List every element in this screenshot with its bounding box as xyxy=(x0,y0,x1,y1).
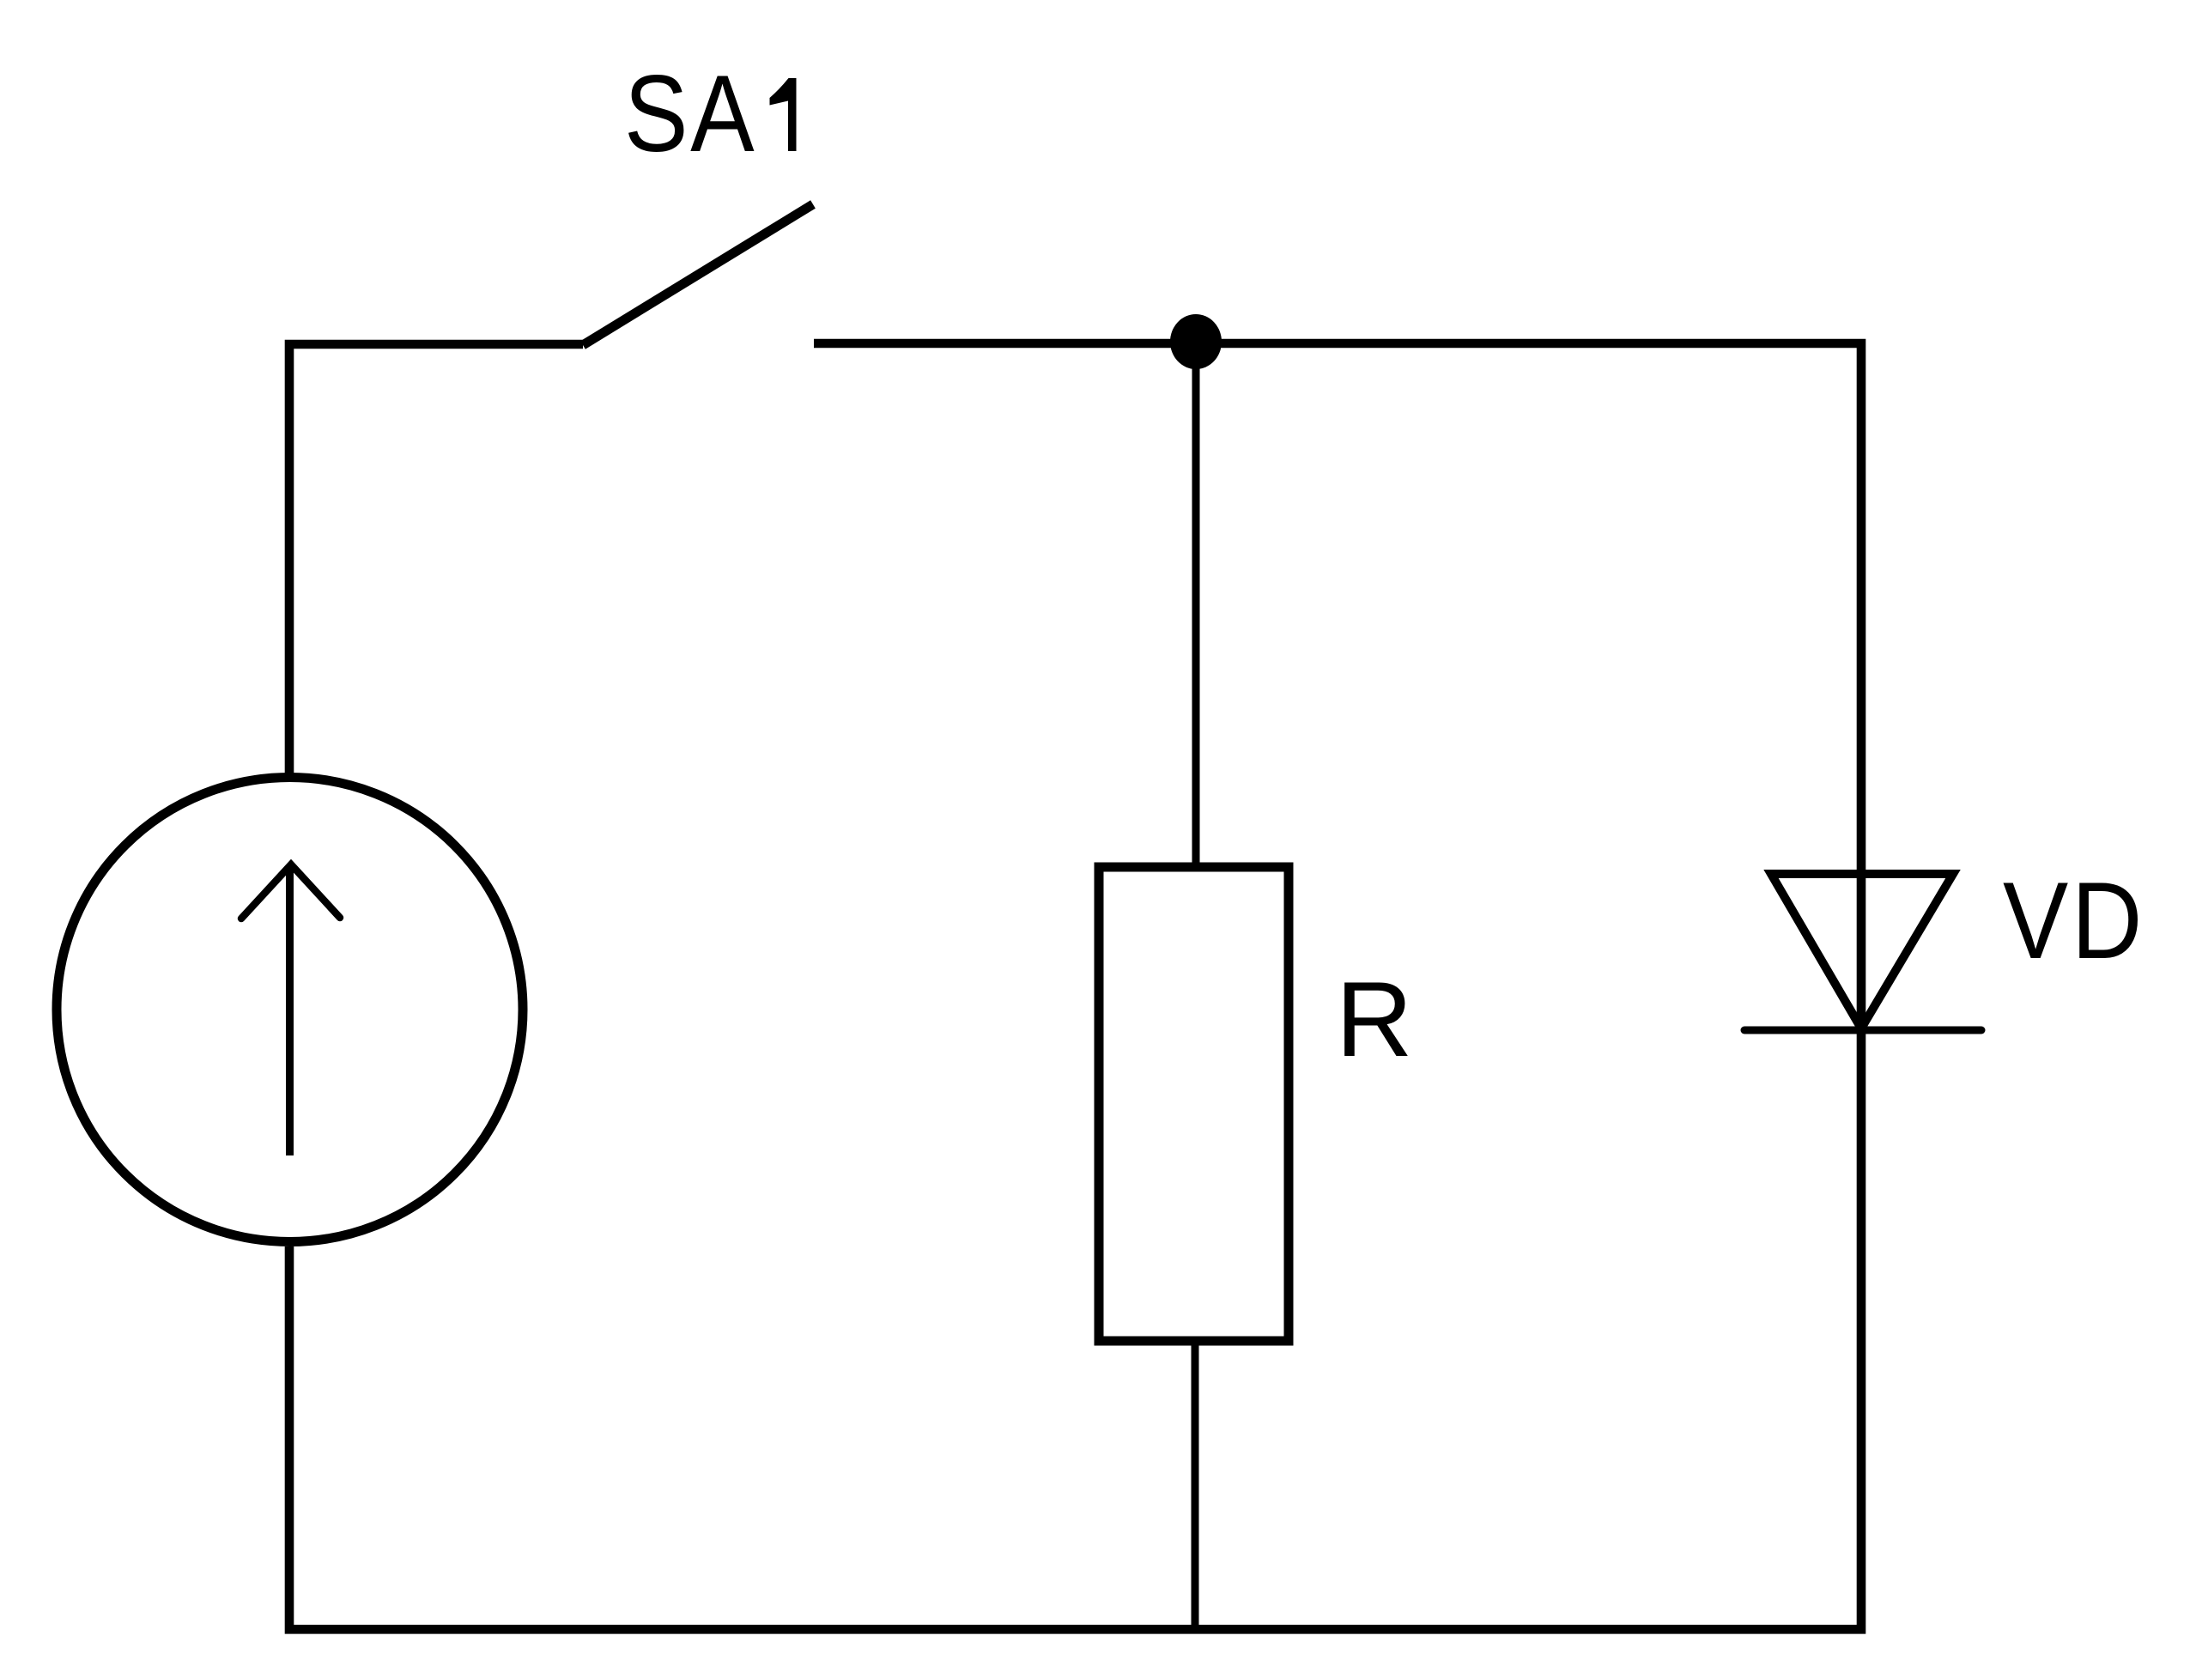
svg-text:R: R xyxy=(1336,961,1413,1079)
label SA1 xyxy=(624,53,756,174)
diode VD triangle xyxy=(1771,874,1953,1028)
label SA1 digit 1 xyxy=(770,78,797,151)
svg-text:VD: VD xyxy=(2003,859,2145,981)
current source G1 circle xyxy=(57,778,523,1242)
wire: resistor bottom to bottom rail xyxy=(1192,1341,1199,1629)
switch SA1 blade xyxy=(583,204,813,345)
wire: node to resistor top xyxy=(1192,342,1200,867)
wire: bottom rail, right rail and right top contact xyxy=(289,343,1861,1629)
wire: left branch top (switch pivot to top-left corner, down to source) xyxy=(289,344,583,777)
resistor R body xyxy=(1099,867,1289,1341)
label VD xyxy=(2003,859,2145,981)
node junction dot xyxy=(1170,314,1222,369)
current source arrow shaft xyxy=(286,865,294,1155)
svg-text:SA: SA xyxy=(624,53,756,174)
current source arrow head xyxy=(241,864,340,919)
diode VD cathode bar xyxy=(1744,1027,1981,1034)
